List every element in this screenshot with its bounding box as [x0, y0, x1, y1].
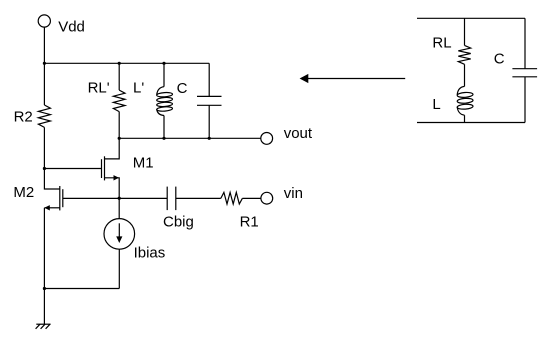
svg-text:vout: vout — [284, 125, 313, 142]
svg-text:L': L' — [133, 79, 144, 96]
svg-text:vin: vin — [284, 185, 303, 202]
svg-text:C: C — [494, 51, 505, 68]
svg-text:RL: RL — [432, 34, 451, 51]
svg-text:M1: M1 — [133, 154, 154, 171]
svg-text:Vdd: Vdd — [58, 19, 85, 36]
svg-text:L: L — [432, 96, 440, 113]
svg-text:RL': RL' — [88, 79, 110, 96]
svg-text:Cbig: Cbig — [163, 214, 194, 231]
svg-text:Ibias: Ibias — [134, 244, 166, 261]
svg-text:R1: R1 — [240, 214, 259, 231]
svg-text:M2: M2 — [13, 184, 34, 201]
svg-text:R2: R2 — [14, 109, 33, 126]
svg-text:C: C — [177, 80, 188, 97]
